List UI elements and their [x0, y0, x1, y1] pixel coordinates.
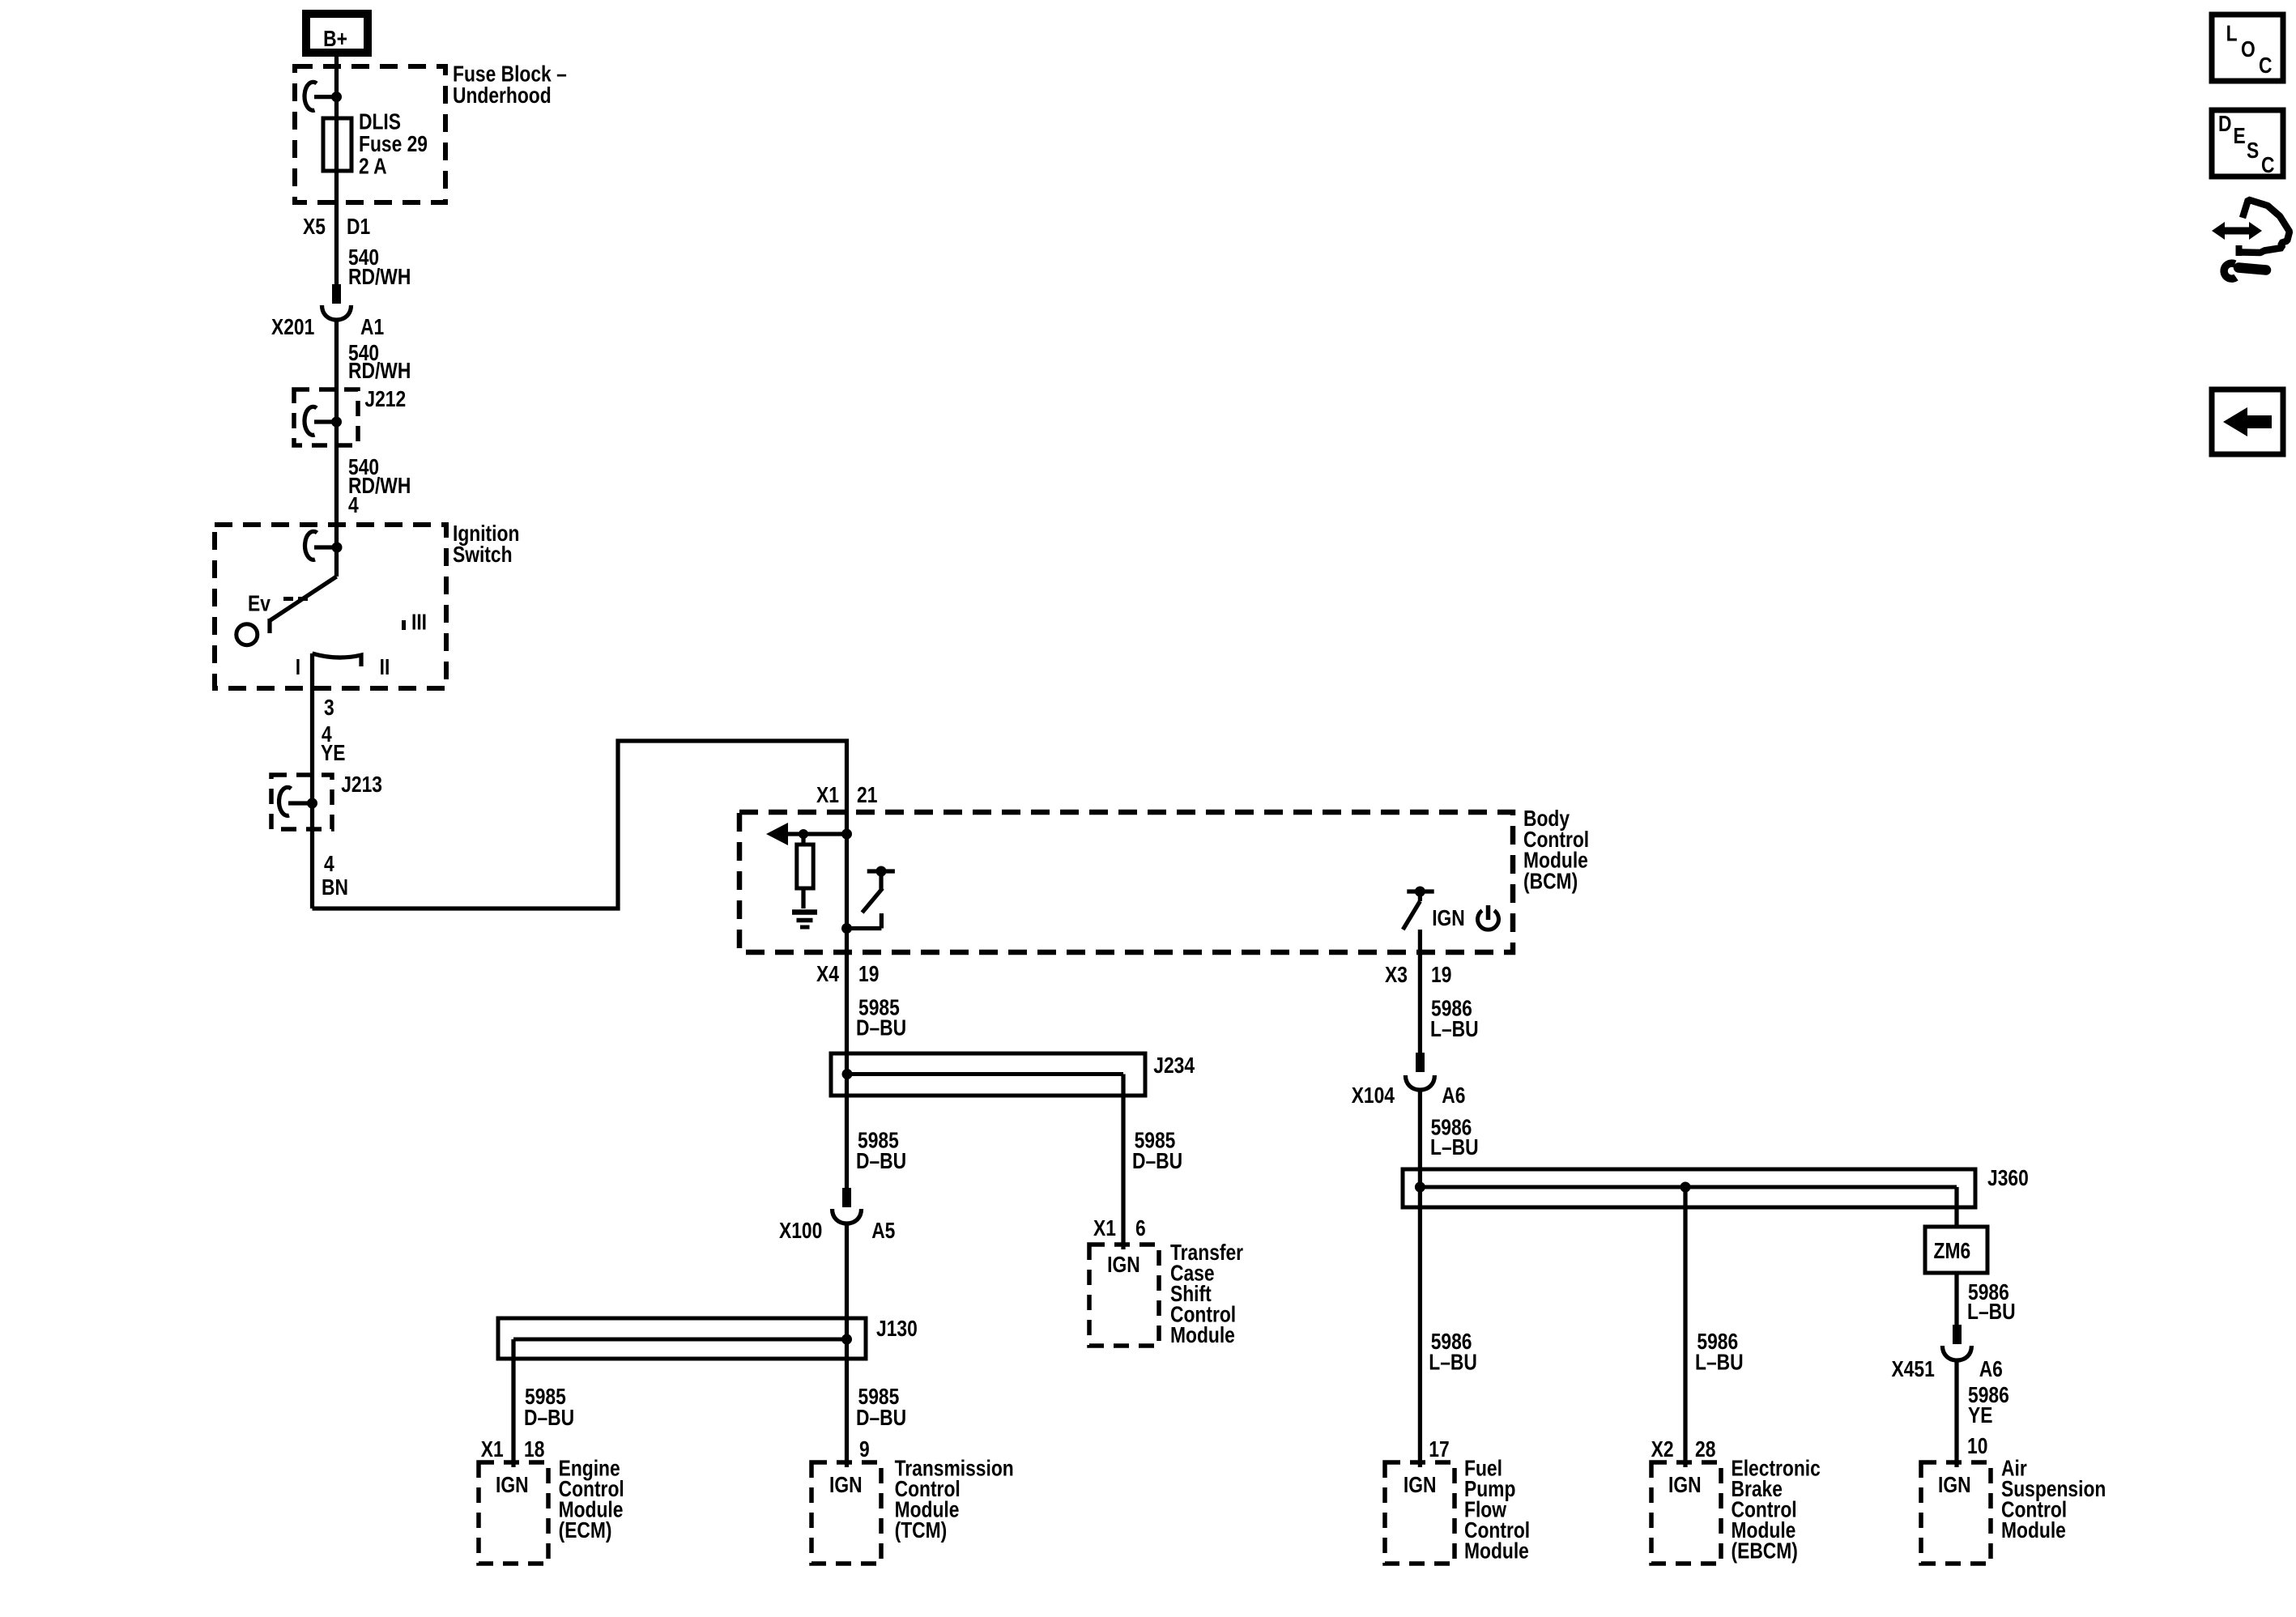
- svg-text:(EBCM): (EBCM): [1732, 1539, 1798, 1564]
- svg-text:X1: X1: [1093, 1216, 1116, 1240]
- svg-text:X1: X1: [481, 1437, 504, 1462]
- svg-text:D1: D1: [347, 215, 370, 239]
- svg-text:J212: J212: [364, 387, 406, 411]
- wire label 5986 YE above Air: [1968, 1383, 2009, 1428]
- svg-text:IGN: IGN: [1404, 1473, 1437, 1497]
- svg-text:A5: A5: [871, 1219, 895, 1243]
- pin labels X5 D1: [303, 215, 370, 239]
- svg-text:X2: X2: [1651, 1437, 1674, 1462]
- icon hand with wrench: [2212, 200, 2290, 279]
- svg-text:9: 9: [859, 1437, 870, 1462]
- tap line: [314, 95, 337, 99]
- Body Control Module box: [739, 812, 1513, 952]
- wire label 5986 L-BU above Fuel Pump: [1429, 1330, 1477, 1375]
- splice pack J130: [498, 1317, 918, 1359]
- splice J213: [271, 772, 382, 829]
- svg-text:YE: YE: [321, 741, 345, 765]
- wire label 5986 L-BU below X104: [1430, 1116, 1479, 1160]
- svg-text:C: C: [2261, 153, 2274, 177]
- connector X100 A5: [779, 1188, 895, 1244]
- svg-text:III: III: [411, 611, 427, 635]
- wire label 5986 L-BU above EBCM: [1695, 1330, 1744, 1375]
- icon back arrow: [2212, 389, 2283, 454]
- wire label 540 RD/WH: [348, 245, 411, 289]
- svg-text:19: 19: [858, 962, 879, 986]
- wire label 540 RD/WH: [348, 341, 411, 383]
- svg-text:(TCM): (TCM): [895, 1518, 948, 1543]
- BCM switch X3 side (IGN): [1403, 887, 1433, 930]
- wire X201 down: [334, 320, 339, 577]
- label Air Suspension Control Module: [2001, 1457, 2106, 1543]
- wire J360 middle branch: [1683, 1187, 1687, 1467]
- wire X3 down: [1418, 930, 1422, 1053]
- svg-text:D–BU: D–BU: [524, 1406, 574, 1430]
- svg-text:S: S: [2247, 138, 2259, 163]
- switch track arc: [313, 653, 362, 666]
- svg-text:X451: X451: [1892, 1357, 1935, 1381]
- wire label 5986 L-BU below ZM6: [1967, 1280, 2016, 1324]
- Transmission Control Module box: [811, 1462, 881, 1564]
- svg-text:Switch: Switch: [453, 543, 513, 567]
- svg-text:IGN: IGN: [1668, 1473, 1702, 1497]
- svg-text:10: 10: [1967, 1434, 1987, 1458]
- svg-text:IGN: IGN: [496, 1473, 529, 1497]
- svg-text:18: 18: [524, 1437, 544, 1462]
- svg-text:X104: X104: [1352, 1083, 1395, 1108]
- svg-text:II: II: [380, 655, 390, 679]
- svg-text:3: 3: [324, 696, 334, 720]
- fuse DLIS Fuse 29 2 A: [323, 110, 428, 179]
- resistor in BCM: [797, 834, 813, 908]
- svg-text:17: 17: [1429, 1437, 1449, 1462]
- svg-text:A1: A1: [360, 315, 384, 339]
- svg-text:X201: X201: [271, 315, 314, 339]
- bus tap hook at fuse: [305, 82, 317, 110]
- Engine Control Module box: [479, 1462, 548, 1564]
- wire label 540 RD/WH 4: [348, 455, 411, 517]
- svg-text:O: O: [2241, 37, 2256, 62]
- Fuel Pump Flow Control Module box: [1385, 1462, 1455, 1564]
- option box ZM6: [1925, 1227, 1987, 1273]
- junction dot fuse tap: [331, 91, 342, 102]
- wire label 5985 D-BU left: [856, 1129, 906, 1174]
- wire J130 left branch: [511, 1339, 515, 1467]
- label Electronic Brake Control Module (EBCM): [1732, 1457, 1821, 1564]
- svg-text:DLIS: DLIS: [359, 110, 401, 134]
- svg-text:J130: J130: [876, 1317, 918, 1341]
- svg-text:Underhood: Underhood: [453, 83, 552, 108]
- svg-text:L–BU: L–BU: [1430, 1017, 1479, 1041]
- label Transfer Case Shift Control Module: [1170, 1240, 1243, 1347]
- label Transmission Control Module (TCM): [895, 1457, 1014, 1543]
- svg-text:4: 4: [348, 493, 359, 517]
- svg-text:B+: B+: [323, 27, 347, 51]
- splice J212: [294, 387, 406, 445]
- Air Suspension Control Module box: [1921, 1462, 1991, 1564]
- label Ignition Switch: [453, 521, 519, 567]
- pin labels X1 6 transfer: [1093, 1216, 1146, 1240]
- wire label 5986 L-BU below X3: [1430, 997, 1479, 1042]
- svg-text:2 A: 2 A: [359, 154, 387, 178]
- svg-text:BN: BN: [322, 875, 348, 900]
- svg-text:L–BU: L–BU: [1695, 1351, 1744, 1375]
- label IGN with power symbol: [1432, 905, 1498, 931]
- svg-text:X1: X1: [816, 783, 839, 807]
- svg-text:D–BU: D–BU: [856, 1406, 906, 1430]
- connector X201 A1: [271, 284, 384, 340]
- svg-text:X4: X4: [816, 962, 839, 986]
- svg-text:19: 19: [1431, 963, 1451, 987]
- position III: [404, 611, 428, 635]
- pin labels X1 18: [481, 1437, 545, 1462]
- svg-text:J234: J234: [1153, 1053, 1195, 1078]
- svg-text:C: C: [2259, 53, 2272, 78]
- pivot circle: [236, 624, 258, 645]
- svg-text:D–BU: D–BU: [856, 1016, 906, 1040]
- power feed B+: [306, 14, 368, 53]
- wire label 5985 D-BU above J130: [524, 1385, 574, 1430]
- internal arrow to other circuits: [766, 823, 852, 845]
- svg-text:Module: Module: [1170, 1323, 1235, 1347]
- wire X104 down: [1418, 1090, 1422, 1467]
- svg-text:A6: A6: [1442, 1083, 1465, 1108]
- svg-text:21: 21: [857, 783, 877, 807]
- wire X100 down: [845, 1223, 849, 1467]
- svg-text:A6: A6: [1979, 1357, 2003, 1381]
- icon DESC: [2212, 110, 2283, 178]
- wire ZM6 down: [1954, 1273, 1958, 1325]
- svg-text:D: D: [2218, 112, 2231, 136]
- wire label 5985 D-BU below X4: [856, 996, 906, 1040]
- svg-text:X3: X3: [1385, 963, 1408, 987]
- Fuse Block - Underhood box: [295, 66, 445, 202]
- svg-text:6: 6: [1135, 1216, 1146, 1240]
- pin labels X2 28: [1651, 1437, 1716, 1462]
- splice pack J234: [831, 1053, 1195, 1096]
- wire label 5985 D-BU above TCM: [856, 1385, 906, 1430]
- label Engine Control Module (ECM): [559, 1457, 624, 1543]
- label Fuse Block - Underhood: [453, 62, 567, 109]
- svg-text:J213: J213: [341, 772, 382, 797]
- svg-text:L–BU: L–BU: [1967, 1300, 2016, 1324]
- svg-text:IGN: IGN: [1938, 1473, 1971, 1497]
- ignition switch blade: [270, 577, 337, 621]
- svg-text:Fuse 29: Fuse 29: [359, 132, 428, 156]
- Electronic Brake Control Module box: [1651, 1462, 1721, 1564]
- label Fuel Pump Flow Control Module: [1464, 1457, 1530, 1564]
- svg-text:E: E: [2234, 124, 2246, 148]
- svg-text:Ev: Ev: [248, 592, 270, 616]
- svg-text:X5: X5: [303, 215, 326, 239]
- svg-text:ZM6: ZM6: [1934, 1239, 1971, 1263]
- svg-text:IGN: IGN: [1107, 1253, 1140, 1277]
- svg-text:YE: YE: [1968, 1403, 1992, 1428]
- connector X104 A6: [1352, 1053, 1466, 1108]
- ignition output wire: [310, 653, 314, 908]
- svg-text:Module: Module: [2001, 1518, 2066, 1543]
- label Body Control Module (BCM): [1523, 806, 1589, 894]
- svg-text:D–BU: D–BU: [1132, 1149, 1182, 1173]
- Ignition Switch box: [215, 525, 446, 688]
- svg-text:D–BU: D–BU: [856, 1149, 906, 1173]
- svg-text:I: I: [296, 655, 300, 679]
- ground in BCM: [792, 913, 817, 928]
- Transfer Case Shift Control Module box: [1089, 1245, 1159, 1346]
- icon LOC: [2212, 15, 2283, 81]
- wire run to BCM: [313, 741, 847, 1188]
- svg-text:4: 4: [324, 852, 334, 876]
- wire J360 right branch to ZM6: [1954, 1187, 1958, 1227]
- splice pack J360: [1403, 1166, 2029, 1207]
- svg-text:(BCM): (BCM): [1523, 869, 1578, 893]
- wire label 5985 D-BU right: [1132, 1129, 1182, 1174]
- svg-text:J360: J360: [1987, 1166, 2029, 1190]
- svg-text:L–BU: L–BU: [1430, 1135, 1479, 1160]
- bus tap in ignition switch: [305, 531, 343, 560]
- wire label 4 BN: [322, 852, 348, 900]
- BCM switch X4 side: [841, 866, 895, 934]
- wire B+ to fuse: [334, 57, 339, 284]
- svg-text:Module: Module: [1464, 1539, 1529, 1564]
- svg-text:X100: X100: [779, 1219, 822, 1243]
- svg-text:(ECM): (ECM): [559, 1518, 612, 1543]
- svg-text:IGN: IGN: [829, 1473, 863, 1497]
- svg-text:L: L: [2226, 22, 2238, 46]
- pin labels X4 19: [816, 962, 879, 986]
- connector X451 A6: [1892, 1325, 2003, 1382]
- pin labels X3 19: [1385, 963, 1451, 987]
- svg-text:L–BU: L–BU: [1429, 1351, 1477, 1375]
- wire label 4 YE: [321, 722, 345, 765]
- key symbol Ev: [248, 592, 308, 616]
- svg-text:IGN: IGN: [1432, 906, 1465, 930]
- svg-text:RD/WH: RD/WH: [348, 265, 411, 289]
- pin labels X1 21: [816, 783, 877, 807]
- wire J234 right branch: [1121, 1074, 1125, 1250]
- blade stub: [267, 619, 271, 633]
- wire X451 down: [1954, 1360, 1958, 1467]
- svg-text:28: 28: [1695, 1437, 1715, 1462]
- svg-text:RD/WH: RD/WH: [348, 359, 411, 383]
